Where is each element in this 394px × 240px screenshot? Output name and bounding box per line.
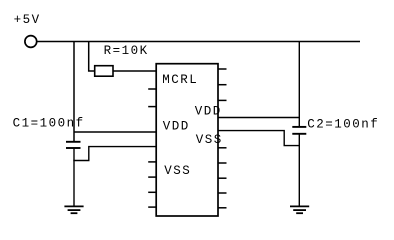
svg-text:+5V: +5V <box>14 13 41 27</box>
wire: rail down to C1 <box>73 42 75 142</box>
svg-text:C2=100nf: C2=100nf <box>307 118 379 132</box>
wire: VSS left pin step to C1 bottom <box>73 147 156 161</box>
wire: rail down to C2 <box>298 42 300 127</box>
IC right pin stubs <box>218 69 227 208</box>
svg-text:MCRL: MCRL <box>162 73 198 87</box>
svg-text:R=10K: R=10K <box>104 44 149 58</box>
wire: C2 bottom to ground <box>298 134 300 207</box>
resistor R1 <box>95 66 113 77</box>
svg-text:VSS: VSS <box>196 133 223 147</box>
svg-text:VDD: VDD <box>163 120 190 134</box>
ground (under C1) <box>64 206 83 213</box>
svg-text:C1=100nf: C1=100nf <box>13 117 85 131</box>
wire: resistor to MCLR pin <box>113 70 156 72</box>
IC left pin stubs <box>148 89 156 207</box>
wire: C1 top to VDD left pin <box>74 131 156 133</box>
wire: rail down to resistor <box>89 42 95 72</box>
svg-text:VSS: VSS <box>164 164 191 178</box>
capacitor C2 <box>292 127 306 134</box>
ground (under C2) <box>290 206 309 213</box>
wire: +5V rail <box>37 41 360 43</box>
op IC U1 body <box>156 64 218 216</box>
capacitor C1 <box>66 142 81 148</box>
wire: VDD right pin to C2 top <box>218 117 300 119</box>
terminal: open circle <box>25 36 37 48</box>
wire: C1 bottom to ground <box>73 148 75 206</box>
wire: VSS right pin step to C2 bottom <box>218 131 299 146</box>
svg-text:VDD: VDD <box>195 104 222 118</box>
